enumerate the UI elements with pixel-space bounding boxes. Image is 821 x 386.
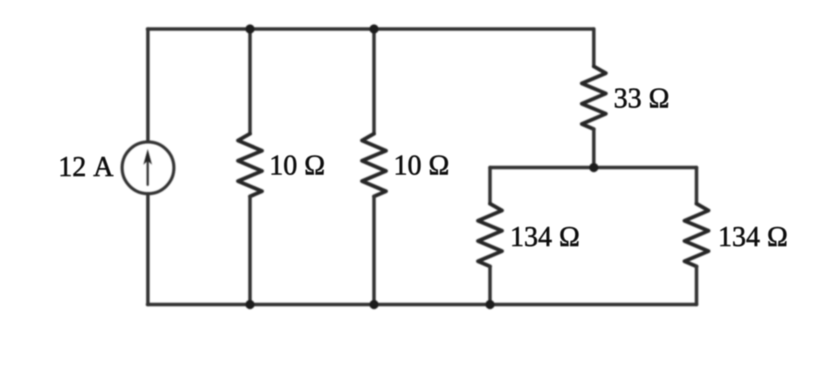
wire: top bus y=29 from left branch to 33ohm branch	[148, 27, 594, 31]
junction node: middle bus / 33 ohm	[589, 163, 598, 172]
wire: bottom bus y=304.5	[148, 303, 697, 307]
svg-text:134 Ω: 134 Ω	[510, 222, 580, 253]
svg-text:10 Ω: 10 Ω	[394, 151, 450, 182]
svg-text:10 Ω: 10 Ω	[269, 151, 325, 182]
current source I1 circle	[122, 142, 174, 194]
wire: left 134 ohm top lead	[488, 168, 492, 204]
wire: R1 bottom lead	[248, 196, 252, 304]
junction node: bottom bus / R1	[245, 300, 254, 309]
wire: R2 top lead	[372, 29, 376, 134]
resistor R2 10 ohm zigzag	[362, 134, 386, 197]
junction node: bottom bus / left 134 ohm	[485, 300, 494, 309]
wire: left branch top lead (current source to top bus)	[146, 29, 150, 142]
resistor R5 134 ohm (right) zigzag	[685, 204, 709, 267]
wire: right 134 ohm top lead	[695, 168, 699, 204]
wire: right 134 ohm bottom lead	[695, 266, 699, 304]
wire: R1 top lead	[248, 29, 252, 134]
resistor R3 33 ohm zigzag	[582, 66, 606, 129]
resistor R4 134 ohm (left) zigzag	[478, 204, 502, 267]
current source I1 arrow head	[143, 149, 152, 165]
wire: R2 bottom lead	[372, 196, 376, 304]
wire: 33 ohm branch top lead	[592, 29, 596, 66]
junction node: top bus / R1	[245, 24, 254, 33]
wire: middle bus y=167.5	[490, 166, 697, 170]
junction node: top bus / R2	[369, 24, 378, 33]
wire: 33 ohm branch bottom lead to middle bus	[592, 129, 596, 167]
wire: left branch bottom lead (current source to bottom bus)	[146, 194, 150, 305]
resistor R1 10 ohm zigzag	[238, 134, 262, 197]
junction node: bottom bus / R2	[369, 300, 378, 309]
svg-text:33 Ω: 33 Ω	[614, 84, 670, 115]
wire: left 134 ohm bottom lead	[488, 266, 492, 304]
svg-text:12 A: 12 A	[58, 152, 114, 183]
current source I1 arrow shaft	[147, 157, 149, 185]
svg-text:134 Ω: 134 Ω	[718, 222, 788, 253]
